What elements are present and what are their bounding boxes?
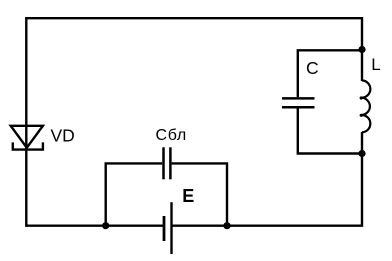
node: bottom junction of LC tank — [358, 150, 365, 157]
diode VD triangle — [11, 126, 43, 148]
capacitor C bottom plate — [282, 106, 315, 109]
capacitor Сбл left plate — [162, 147, 165, 179]
svg-text:L: L — [371, 55, 380, 74]
diode VD cathode bracket — [13, 142, 43, 149]
svg-text:Сбл: Сбл — [156, 127, 187, 144]
inductor L coil — [361, 80, 370, 132]
svg-text:E: E — [182, 186, 194, 206]
wire: Сбл sub-loop left vertical + top-left — [106, 163, 163, 225]
capacitor Сбл right plate — [169, 147, 172, 179]
node: right junction of Сбл loop on bottom wire — [223, 222, 230, 229]
node: left junction of Сбл loop on bottom wire — [102, 222, 109, 229]
wire: Сбл sub-loop top-right + right vertical — [172, 163, 227, 225]
inductor L coil knot upper — [360, 96, 363, 99]
battery E long plate — [170, 202, 172, 254]
wire: LC branch left vertical lower + bottom horizontal — [298, 109, 362, 154]
wire: bottom-left + left + top + right-upper segment — [26, 18, 362, 226]
wire: right-lower + bottom-right segment — [172, 132, 363, 226]
inductor L coil knot lower — [360, 114, 363, 117]
battery E short plate — [163, 216, 166, 241]
node: top junction of LC tank — [358, 46, 365, 53]
svg-text:C: C — [306, 58, 319, 78]
wire: LC branch top horizontal + left vertical upper — [298, 50, 362, 97]
svg-text:VD: VD — [51, 126, 75, 146]
capacitor C top plate — [282, 97, 315, 100]
